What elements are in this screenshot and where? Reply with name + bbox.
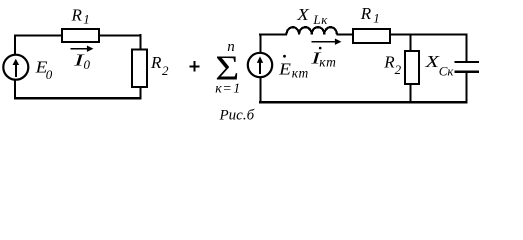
label Ikt with dot — [319, 47, 322, 50]
resistor R1 (left) body — [62, 29, 99, 42]
svg-text:=: = — [223, 82, 231, 97]
svg-text:X: X — [424, 52, 440, 71]
svg-text:n: n — [227, 39, 235, 55]
wire: left vertical, top wire to source circle — [14, 35, 16, 55]
current source Ekt arrow — [259, 62, 261, 74]
svg-text:Рис.б: Рис.б — [219, 107, 255, 123]
wire: capacitor bottom plate to bottom wire — [465, 72, 467, 103]
wire: capacitor branch, top wire down to top plate — [465, 34, 467, 62]
svg-text:X: X — [296, 5, 309, 24]
capacitor XCk top plate — [454, 61, 478, 63]
svg-text:E: E — [278, 60, 292, 79]
svg-text:Lк: Lк — [312, 12, 328, 27]
svg-text:R: R — [150, 53, 162, 72]
svg-text:2: 2 — [395, 62, 402, 77]
wire: inductor to R1 (right) — [336, 33, 353, 35]
wire: T junction down to R2 (right) — [409, 34, 411, 51]
current source E0 (circle) — [3, 55, 28, 80]
wire: right vertical, top wire to R2 — [139, 34, 141, 50]
wire: source circle to bottom wire (right circuit) — [259, 78, 261, 104]
resistor R2 (left) body — [132, 49, 147, 87]
svg-text:R: R — [383, 52, 395, 71]
plus sign — [190, 61, 200, 71]
capacitor XCk bottom plate — [454, 71, 478, 73]
svg-text:2: 2 — [162, 63, 169, 78]
resistor R1 (right) body — [353, 29, 390, 43]
current arrow Ikt — [311, 41, 336, 43]
inductor XLk (4 humps) — [287, 27, 337, 34]
wire: left vertical, source circle to bottom wire — [14, 80, 16, 100]
wire: top horizontal, left corner to R1 — [14, 35, 62, 37]
svg-text:1: 1 — [233, 82, 240, 97]
svg-text:1: 1 — [373, 11, 380, 26]
label Ekt with dot — [283, 55, 286, 58]
svg-text:0: 0 — [46, 67, 53, 82]
svg-text:R: R — [71, 6, 83, 25]
wire: top horizontal, corner to inductor — [259, 33, 287, 35]
wire: R1 to top-right corner — [390, 33, 468, 35]
current arrow I0 — [70, 48, 87, 50]
current source E0 arrow — [15, 64, 17, 77]
resistor R2 (right) body — [405, 51, 419, 84]
wire: top horizontal, R1 to right corner — [99, 35, 141, 37]
svg-text:к: к — [215, 82, 222, 97]
svg-text:1: 1 — [83, 12, 90, 27]
wire: bottom horizontal of left circuit — [14, 97, 141, 99]
svg-text:0: 0 — [84, 57, 91, 72]
current source Ekt (circle) — [248, 53, 272, 77]
wire: left vertical, top wire to source circle (right circuit) — [259, 34, 261, 53]
wire: R2 (right) to bottom wire — [409, 85, 411, 104]
svg-text:R: R — [360, 4, 372, 23]
summation sigma — [215, 49, 239, 87]
svg-text:кт: кт — [319, 54, 337, 69]
svg-text:Cк: Cк — [439, 64, 455, 79]
wire: bottom horizontal of right circuit — [259, 101, 468, 103]
wire: right vertical, R2 to bottom wire — [139, 87, 141, 99]
svg-text:кт: кт — [292, 65, 309, 80]
